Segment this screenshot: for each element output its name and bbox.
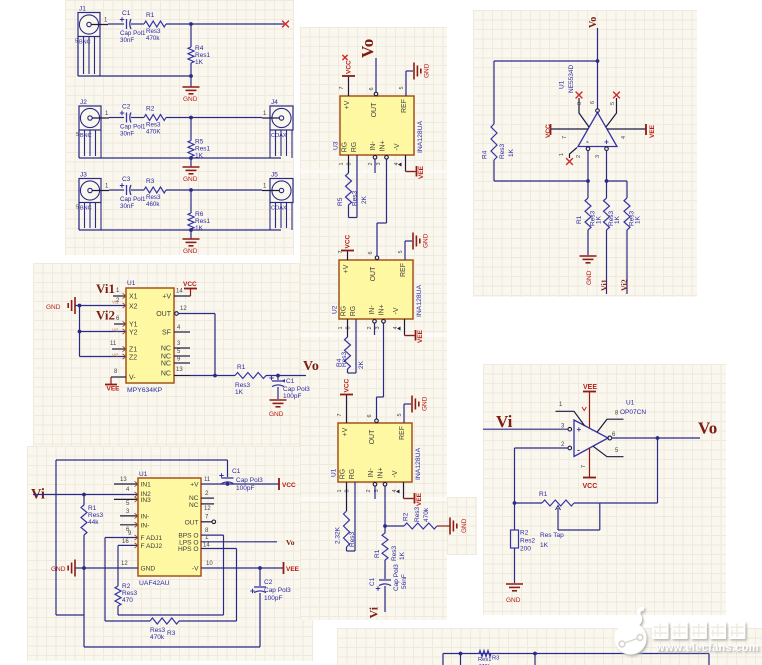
instrumentation amp U3 INA128UA: [333, 96, 425, 155]
no-connect X: [282, 21, 289, 28]
wire J2 to C2: [109, 117, 124, 119]
label Vi: [31, 487, 45, 503]
wire GND to X2/Y2/Z2: [75, 304, 126, 357]
label Vi1: [96, 281, 115, 296]
wire IN- stub (U2): [373, 320, 377, 336]
ground: [269, 400, 287, 418]
wire X1 pin 1: [112, 288, 126, 305]
pin 1 lead with X: [559, 148, 577, 165]
capacitor C1 Cap Pol3 56nF: [369, 564, 408, 612]
resistor R3 Res3 460k: [144, 178, 166, 208]
schematic panel backgrounds: [65, 0, 294, 255]
instrumentation amp U2 INA128UA: [332, 260, 424, 319]
filter chip U1 UAF42AU: [138, 471, 201, 587]
pin 1 lead: [556, 411, 585, 425]
label Vi: [496, 412, 513, 431]
power VCC (bottom): [581, 448, 597, 490]
label Vi2: [96, 308, 115, 323]
wire J3 to C3: [109, 189, 124, 191]
ground (left): [51, 560, 75, 577]
power VEE pin 10: [201, 561, 300, 574]
power VEE pin 8: [105, 369, 126, 393]
wire feedback to pin2: [494, 179, 590, 183]
wire left loop: [56, 460, 228, 647]
label Vi (bottom): [367, 606, 381, 618]
resistor R1 Res3 1K (U1 in): [374, 526, 406, 579]
capacitor C1 Cap Pol3 100pF: [219, 460, 263, 492]
pin IN- 6: [120, 522, 138, 533]
wire BPS O pin 8 loop: [118, 528, 224, 615]
ground REF (U3): [399, 63, 431, 97]
junction: [189, 74, 193, 78]
no-connect x: [342, 55, 347, 60]
resistor R3 Res3 470k: [150, 618, 237, 641]
pin NC 9: [174, 357, 190, 364]
resistor R1 Res3 1K: [235, 364, 266, 396]
power VEE (U2): [393, 319, 424, 343]
wire to Vo: [266, 374, 306, 378]
pin Z2 arrow: [123, 354, 127, 359]
wire GND row: [75, 561, 138, 570]
wire to open end: [166, 23, 284, 25]
wire output: [190, 374, 235, 378]
resistor R2 Res3 1K: [604, 198, 622, 294]
wire output to Vo: [612, 436, 701, 440]
ground: [183, 230, 200, 255]
wire: [131, 189, 144, 191]
wire LPS O pin 1 to Vo: [201, 535, 277, 542]
resistor R4 Res3 1K: [482, 61, 516, 181]
power VCC pin 7: [545, 124, 588, 139]
capacitor C2 Cap Pol1 30nF: [120, 104, 146, 138]
capacitor C1 Cap Pol1 30nF: [120, 10, 146, 44]
wire: [131, 117, 144, 119]
capacitor C2 Cap Pol3 100pF: [250, 568, 291, 647]
wire IN+ (U2) from U1 OUT: [375, 320, 386, 423]
junction: [189, 156, 193, 160]
wire IN- stub (U1): [373, 483, 377, 500]
pin 8 lead with X: [576, 92, 589, 127]
resistor R2 Res3 470K: [144, 106, 166, 136]
wire bottom: [84, 646, 260, 648]
pin numbers (U3): [339, 87, 382, 165]
power VEE (U3): [394, 155, 425, 179]
ground REF (U1): [397, 396, 429, 424]
wire OUT U3 to Vo: [374, 58, 378, 96]
power VCC pin 14: [174, 281, 197, 296]
label Vi1: [600, 279, 609, 291]
pin 3 input: [595, 147, 608, 198]
power VCC (U3): [339, 60, 355, 96]
multiplier chip U1 MPY634KP: [126, 280, 174, 394]
resistor R1 Res3 44k: [81, 495, 104, 569]
power VEE (top): [582, 384, 597, 428]
pin NC 5: [174, 349, 190, 356]
resistor R2 Res2 200: [511, 503, 536, 583]
pin SF 4: [174, 325, 190, 332]
ground: [506, 584, 523, 604]
power VCC (U2): [338, 234, 354, 260]
wire to output connector: [166, 117, 262, 119]
pin numbers (U2): [338, 251, 381, 329]
resistor R4 Res1 1K: [188, 24, 211, 76]
power VCC (U1): [337, 378, 353, 423]
pin 5 lead with X: [606, 92, 620, 127]
wire feedback right: [600, 438, 658, 503]
connector J5 (BNC): [262, 172, 293, 231]
label Vo (small): [286, 538, 295, 547]
pin X2 arrow: [116, 298, 126, 308]
ground: [580, 256, 597, 285]
connector J1 (BNC): [75, 6, 108, 77]
ground REF (U2): [398, 233, 430, 261]
resistor R5 Res1 1K: [188, 118, 211, 160]
pin 6 number: [590, 101, 596, 104]
junction: [189, 228, 193, 232]
label Vi2: [620, 279, 629, 291]
wire HPS O pin 14: [201, 543, 237, 622]
pin IN- 3: [120, 509, 138, 519]
wire IN- stub (U3): [373, 156, 377, 174]
pin NC 2: [201, 491, 214, 498]
wire to output connector: [166, 189, 262, 191]
label Vo: [588, 17, 599, 28]
wire IN+ (U3) from U2 OUT: [375, 156, 388, 260]
op-amp U1 OP07CN: [568, 400, 646, 457]
resistor R1 Res3 470k: [144, 12, 166, 42]
instrumentation amp U1 INA128UA: [331, 423, 423, 482]
resistor R6 Res1 1K: [188, 190, 211, 232]
wire partial circuit: [443, 652, 709, 665]
wire OUT pin 12: [175, 306, 215, 376]
pin OUT 7: [201, 515, 216, 524]
ground (left): [46, 297, 75, 314]
wire Y1 pin 6: [112, 316, 126, 333]
wire Vi to IN2 pin 4: [33, 487, 138, 497]
ground: [183, 76, 200, 103]
label Vo (top): [358, 39, 377, 58]
pin IN3 5: [114, 497, 138, 507]
wire feedback top: [494, 59, 599, 63]
junction: [189, 188, 193, 192]
connector J2 (BNC): [76, 99, 109, 158]
junction: [189, 116, 193, 120]
label Vo: [698, 419, 717, 438]
resistor R1 Res Tap 1K: [515, 491, 600, 549]
wire pin 2 feedback: [513, 448, 568, 505]
capacitor C1 Cap Pol3 100pF: [269, 376, 310, 401]
wire ground return: [79, 203, 281, 231]
watermark url text: [656, 642, 759, 654]
resistor R1 Res3 1K: [576, 198, 603, 255]
label Vo: [303, 359, 319, 374]
op-amp U1 NE5534D: [559, 65, 618, 147]
power VEE pin 4: [607, 124, 656, 139]
junction: [189, 22, 193, 26]
pin IN1 13: [114, 477, 138, 487]
wire F ADJ1 pin 9: [105, 531, 150, 621]
wire output vertical: [597, 28, 599, 109]
pin 8 lead: [597, 419, 624, 432]
wire IN+ (U1) down: [383, 483, 387, 528]
ground: [183, 158, 200, 183]
connector J4 (BNC): [262, 99, 293, 158]
pin NC 12: [201, 504, 214, 512]
wire ground return: [79, 130, 281, 158]
pin NC 13: [174, 367, 190, 376]
wire pin3 branch: [605, 179, 627, 198]
connector J3 (BNC): [76, 172, 109, 231]
pin 2 input: [576, 147, 590, 198]
wire J1 to C1: [108, 23, 124, 25]
pin 5 lead: [593, 446, 624, 457]
pin NC 3: [174, 341, 190, 348]
gain resistor 2.32K Res3 (U1): [335, 482, 357, 551]
resistor R2 Res3 470: [115, 545, 138, 615]
gain resistor R4 Res3 2K (U2): [336, 319, 365, 373]
wire Vi to pin 3: [483, 428, 568, 430]
ground (R2): [450, 518, 468, 535]
power VCC pin 11: [201, 477, 296, 490]
gain resistor R5 Res3 2K (U3): [337, 155, 368, 218]
pin Y2 arrow: [123, 329, 127, 334]
resistor R3 Res1: [478, 651, 499, 665]
wire ground return: [78, 37, 191, 77]
resistor R3 Res3 1K: [624, 198, 642, 294]
pin numbers (U1): [337, 414, 380, 492]
pin labels: [559, 402, 619, 454]
wire: [131, 23, 144, 25]
wire Z1 pin 11: [110, 341, 126, 358]
wire F ADJ2 pin 16: [118, 539, 138, 548]
capacitor C3 Cap Pol1 30nF: [120, 176, 146, 210]
power VEE (U1): [392, 482, 423, 506]
resistor R2 Res3 470k (to GND): [385, 506, 450, 529]
